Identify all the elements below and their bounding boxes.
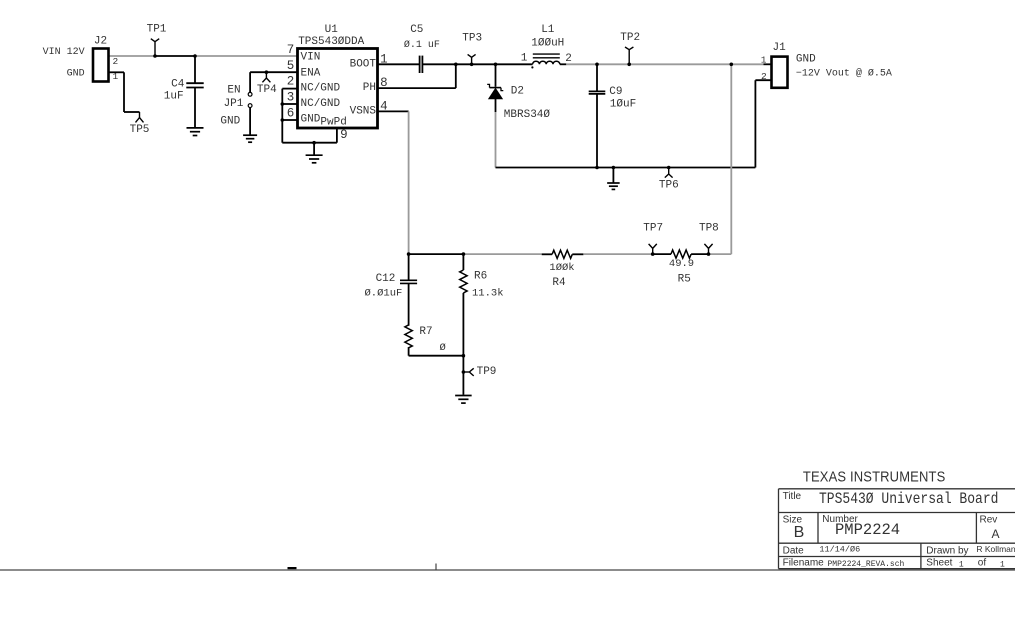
svg-text:R5: R5	[678, 273, 691, 285]
svg-text:9: 9	[340, 128, 348, 142]
svg-text:GND: GND	[67, 69, 85, 80]
svg-text:2: 2	[761, 71, 767, 82]
svg-text:1: 1	[380, 53, 388, 67]
svg-text:J1: J1	[772, 42, 786, 54]
svg-text:BOOT: BOOT	[350, 58, 377, 70]
svg-text:−12V Vout @ Ø.5A: −12V Vout @ Ø.5A	[796, 68, 892, 80]
svg-text:Rev: Rev	[980, 514, 998, 525]
svg-text:Drawn by: Drawn by	[926, 546, 968, 557]
svg-text:TP9: TP9	[477, 366, 497, 378]
svg-text:1uF: 1uF	[164, 91, 184, 103]
svg-text:R Kollman: R Kollman	[976, 544, 1015, 554]
svg-text:VIN 12V: VIN 12V	[43, 47, 85, 58]
svg-text:PMP2224_REVA.sch: PMP2224_REVA.sch	[828, 560, 905, 569]
svg-text:MBRS34Ø: MBRS34Ø	[504, 109, 551, 121]
svg-text:TP6: TP6	[659, 180, 679, 192]
svg-text:2: 2	[565, 53, 572, 65]
svg-text:1ØØuH: 1ØØuH	[531, 37, 564, 49]
svg-text:GND: GND	[796, 54, 816, 66]
svg-text:PH: PH	[363, 82, 376, 94]
svg-text:EN: EN	[227, 84, 240, 96]
svg-text:PMP2224: PMP2224	[835, 521, 900, 539]
svg-text:1ØØk: 1ØØk	[549, 262, 574, 274]
svg-text:Ø: Ø	[439, 342, 445, 354]
svg-text:Title: Title	[783, 491, 802, 502]
svg-text:TP8: TP8	[699, 223, 719, 235]
svg-text:1: 1	[1000, 561, 1005, 570]
svg-text:C12: C12	[376, 273, 396, 285]
svg-text:7: 7	[287, 43, 295, 57]
svg-text:TPS543Ø Universal Board: TPS543Ø Universal Board	[819, 491, 998, 508]
svg-text:U1: U1	[325, 24, 339, 36]
svg-text:R7: R7	[419, 326, 432, 338]
svg-text:Sheet: Sheet	[926, 557, 952, 568]
svg-text:GND: GND	[301, 114, 321, 126]
svg-text:JP1: JP1	[224, 98, 244, 110]
svg-text:C9: C9	[609, 86, 622, 98]
svg-text:L1: L1	[541, 24, 555, 36]
svg-text:TP1: TP1	[147, 24, 167, 36]
svg-text:3: 3	[287, 90, 295, 104]
svg-text:J2: J2	[94, 36, 107, 48]
svg-text:11.3k: 11.3k	[472, 287, 504, 299]
svg-text:TP4: TP4	[257, 84, 277, 96]
svg-text:C4: C4	[171, 78, 185, 90]
svg-text:C5: C5	[410, 24, 423, 36]
svg-text:NC/GND: NC/GND	[301, 83, 341, 95]
svg-text:49.9: 49.9	[669, 258, 694, 270]
svg-text:1: 1	[761, 54, 767, 65]
svg-text:D2: D2	[511, 86, 524, 98]
svg-text:TP5: TP5	[130, 124, 150, 136]
svg-text:1: 1	[959, 561, 964, 570]
svg-text:TP7: TP7	[643, 223, 663, 235]
svg-text:TPS543ØDDA: TPS543ØDDA	[298, 36, 364, 48]
svg-text:R6: R6	[474, 271, 487, 283]
svg-text:VSNS: VSNS	[350, 105, 377, 117]
svg-text:1ØuF: 1ØuF	[610, 99, 636, 111]
svg-text:PwPd: PwPd	[320, 117, 346, 129]
svg-text:NC/GND: NC/GND	[301, 98, 341, 110]
svg-text:Ø.Ø1uF: Ø.Ø1uF	[364, 288, 402, 300]
svg-text:ENA: ENA	[301, 67, 321, 79]
svg-text:2: 2	[287, 74, 295, 88]
svg-text:11/14/Ø6: 11/14/Ø6	[819, 545, 860, 555]
svg-text:8: 8	[380, 76, 388, 90]
svg-text:5: 5	[287, 59, 295, 73]
svg-text:A: A	[991, 527, 999, 541]
svg-text:1: 1	[521, 53, 528, 65]
svg-text:2: 2	[112, 56, 118, 67]
svg-text:Filename: Filename	[783, 557, 825, 568]
svg-text:VIN: VIN	[301, 51, 321, 63]
svg-text:6: 6	[287, 106, 295, 120]
svg-text:Date: Date	[783, 546, 805, 557]
svg-text:R4: R4	[552, 277, 566, 289]
svg-text:B: B	[794, 524, 805, 541]
svg-text:GND: GND	[220, 116, 240, 128]
svg-text:TP2: TP2	[620, 32, 640, 44]
svg-text:4: 4	[380, 99, 388, 113]
svg-text:TP3: TP3	[462, 33, 482, 45]
svg-text:of: of	[978, 557, 987, 568]
svg-text:1: 1	[112, 71, 118, 82]
svg-text:TEXAS INSTRUMENTS: TEXAS INSTRUMENTS	[803, 468, 945, 485]
svg-text:Ø.1 uF: Ø.1 uF	[404, 39, 440, 51]
